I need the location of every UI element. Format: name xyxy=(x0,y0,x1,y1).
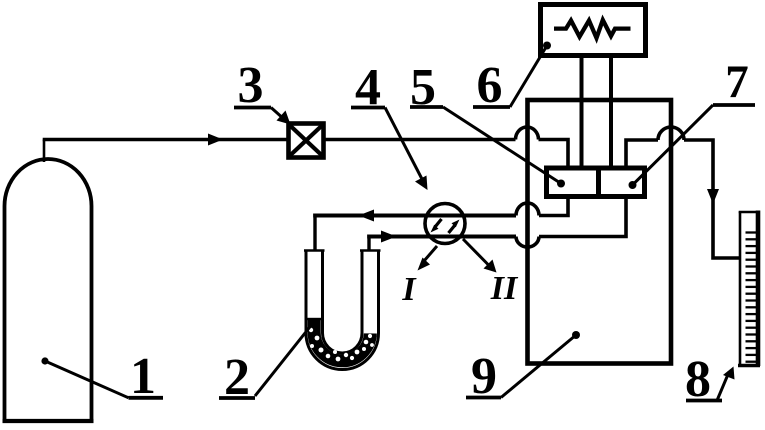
lower wire: manometer right limb to mixer circle xyxy=(367,235,516,239)
label 5 leader xyxy=(443,107,561,184)
scale top cap xyxy=(739,211,760,214)
label I leader arrow xyxy=(424,246,437,261)
svg-text:II: II xyxy=(490,270,519,307)
label 6 underline xyxy=(473,105,510,109)
right limb inner wall xyxy=(361,251,364,334)
svg-text:3: 3 xyxy=(238,57,264,114)
label 3 leader xyxy=(271,108,285,121)
label 6 leader xyxy=(510,46,547,108)
wire: hop to down-turn into element 5 xyxy=(539,140,569,168)
label 2 underline xyxy=(219,396,255,400)
label 4 underline xyxy=(351,106,385,110)
wire hop over chamber left wall at y139 xyxy=(516,127,539,140)
wire: element 7 top riser to right xyxy=(626,140,658,167)
label 9 leader xyxy=(501,335,576,398)
measuring chamber (component 9) outline xyxy=(528,100,672,364)
right limb outer wall xyxy=(377,251,380,334)
wire: valve to chamber wall xyxy=(324,138,516,142)
scale bottom cap xyxy=(738,364,760,367)
manometer left limb top cap xyxy=(304,249,325,252)
label 8 leader xyxy=(717,372,729,401)
mini arrow inside circle pointing up-right xyxy=(449,225,456,233)
right flow arrow on lower wire xyxy=(381,231,397,243)
label 6 leader dot xyxy=(543,42,551,50)
label 5 underline xyxy=(410,105,443,109)
left limb inner wall xyxy=(321,251,324,334)
wire: hop to down-turn toward scale 8 xyxy=(684,140,739,258)
label 1 leader dot xyxy=(41,357,48,364)
downward flow arrow on scale wire xyxy=(707,189,719,204)
wire hop over chamber left wall at y215 xyxy=(516,203,539,216)
label 3 underline xyxy=(234,106,271,110)
scale right edge thick xyxy=(756,211,761,367)
upper wire: manometer left limb to mixer circle to chamber xyxy=(313,214,516,218)
graduated scale (component 8) left edge xyxy=(739,212,742,367)
U-bend inner arc xyxy=(323,333,363,353)
label 3 leader arrowhead xyxy=(277,111,291,125)
left flow arrow on upper wire xyxy=(359,210,375,222)
mixer / switch circle (component 4) xyxy=(425,204,465,244)
cylinder outlet riser xyxy=(43,140,46,163)
upper wire riser to manometer left limb xyxy=(313,214,316,252)
label 7 leader dot xyxy=(629,181,637,189)
liquid stipple white speckles xyxy=(309,328,377,362)
label 8 underline xyxy=(686,399,722,403)
label 1 leader xyxy=(45,361,129,398)
label 1 underline xyxy=(129,396,164,400)
wire: hop to riser of element 5 bottom xyxy=(539,196,568,216)
flow arrow on main pipe xyxy=(208,134,223,146)
manometer right limb top cap xyxy=(360,249,381,252)
label 7 leader xyxy=(633,105,714,185)
lower wire riser to manometer right limb xyxy=(367,235,370,252)
meniscus left limb xyxy=(307,318,323,320)
U-bend outer arc xyxy=(306,333,379,369)
wire hop under chamber left wall at y236 xyxy=(516,237,539,248)
scale tick marks xyxy=(746,233,758,362)
liquid in U-bend: dark band xyxy=(314,320,370,361)
zigzag resistor symbol inside recorder xyxy=(554,20,631,38)
gas cylinder bottom edge xyxy=(3,419,94,423)
label 2 leader xyxy=(255,323,313,396)
wire hop over chamber right wall at y140 xyxy=(658,127,684,140)
svg-text:7: 7 xyxy=(725,56,749,108)
label 4 leader arrowhead xyxy=(415,176,428,191)
gas cylinder body (component 1) xyxy=(5,159,92,421)
valve V (component 3) square xyxy=(289,124,324,158)
label 9 underline xyxy=(466,396,501,400)
label 8 leader arrowhead xyxy=(723,367,735,380)
valve X diagonals xyxy=(290,126,322,156)
divider between elements 5 and 7 xyxy=(596,168,601,197)
stem wires recorder to elements xyxy=(582,56,612,168)
label 9 leader dot xyxy=(572,331,580,339)
wire: hop to riser of element 7 bottom xyxy=(539,196,626,237)
mini arrow inside circle pointing down-left xyxy=(435,219,442,227)
heater elements box: outer rect (components 5 and 7) xyxy=(547,168,645,197)
wire: main pipe cylinder to valve xyxy=(43,138,288,142)
recorder box (component 6) xyxy=(541,5,646,56)
U-tube manometer (component 2) left limb outer wall xyxy=(305,251,308,334)
label 7 underline xyxy=(713,103,755,107)
label 4 leader xyxy=(385,108,423,182)
label 2 leader dot xyxy=(309,319,317,327)
label 5 leader dot xyxy=(557,180,565,188)
label II leader arrow xyxy=(463,239,489,266)
svg-text:I: I xyxy=(401,271,417,308)
